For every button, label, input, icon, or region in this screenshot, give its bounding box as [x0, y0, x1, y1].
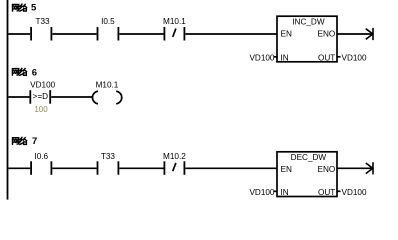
- svg-text:7: 7: [32, 136, 37, 147]
- svg-text:I0.5: I0.5: [101, 17, 115, 26]
- svg-text:DEC_DW: DEC_DW: [291, 153, 327, 162]
- svg-text:T33: T33: [35, 17, 50, 26]
- svg-text:VD100: VD100: [30, 80, 55, 89]
- svg-text:EN: EN: [281, 30, 292, 39]
- svg-text:EN: EN: [281, 165, 292, 174]
- svg-text:5: 5: [31, 3, 37, 14]
- svg-text:100: 100: [34, 105, 48, 114]
- svg-text:IN: IN: [281, 53, 289, 62]
- svg-text:VD100: VD100: [249, 53, 274, 62]
- svg-text:ENO: ENO: [318, 30, 336, 39]
- svg-text:T33: T33: [101, 152, 116, 161]
- svg-text:6: 6: [32, 67, 37, 78]
- svg-text:M10.1: M10.1: [96, 80, 119, 89]
- svg-text:VD100: VD100: [342, 188, 367, 197]
- svg-text:OUT: OUT: [318, 53, 335, 62]
- svg-text:>=D: >=D: [33, 92, 49, 101]
- svg-text:VD100: VD100: [249, 188, 274, 197]
- svg-text:ENO: ENO: [318, 165, 336, 174]
- svg-text:IN: IN: [281, 188, 289, 197]
- svg-text:M10.2: M10.2: [163, 152, 186, 161]
- svg-text:OUT: OUT: [318, 188, 335, 197]
- svg-text:M10.1: M10.1: [163, 17, 186, 26]
- svg-text:I0.6: I0.6: [34, 152, 48, 161]
- svg-text:VD100: VD100: [342, 53, 367, 62]
- svg-text:INC_DW: INC_DW: [292, 18, 325, 27]
